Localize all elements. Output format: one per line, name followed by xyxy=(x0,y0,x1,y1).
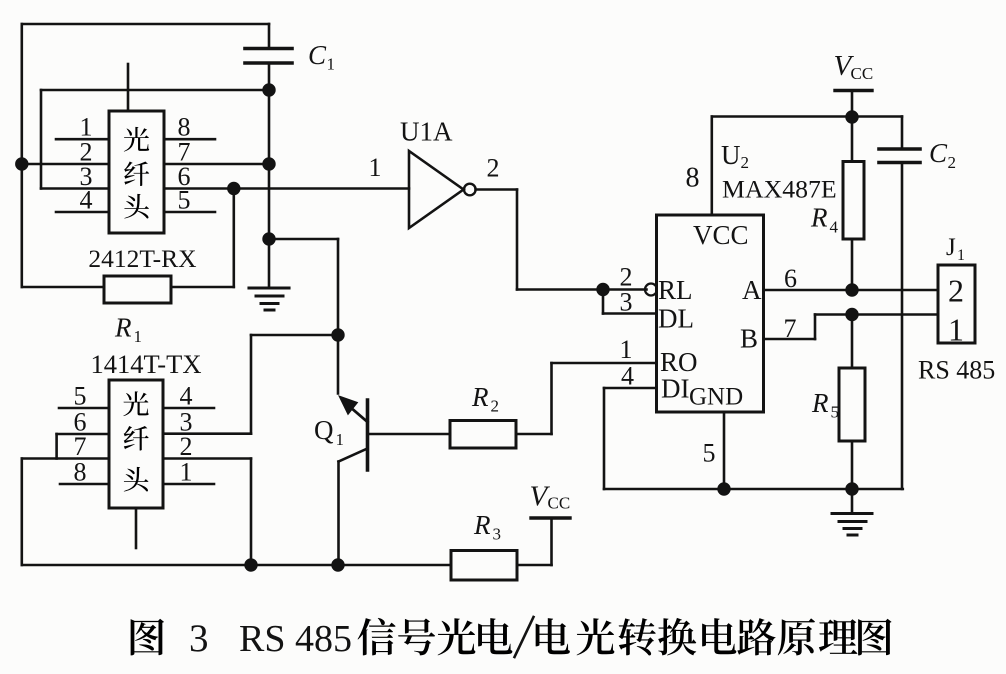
transistor Q1 emitter arrowhead xyxy=(339,396,358,415)
node junction GND pin5 xyxy=(717,482,730,495)
wire RX pin 1 xyxy=(56,138,109,141)
U1A output bubble xyxy=(464,184,476,196)
wire RX pin 2 xyxy=(22,163,109,166)
wire VCC rail horizontal xyxy=(712,115,902,118)
wire second top rail (pin3 net to ground net) xyxy=(41,89,269,92)
svg-text:1414T-TX: 1414T-TX xyxy=(91,349,202,379)
svg-text:GND: GND xyxy=(689,384,743,411)
svg-text:4: 4 xyxy=(621,362,634,391)
node junction A/R4 xyxy=(845,283,858,296)
wire TX pin3 riser to emitter node xyxy=(251,334,338,337)
TX block text xian xyxy=(124,426,149,451)
svg-text:RS 485: RS 485 xyxy=(918,356,995,385)
svg-text:1: 1 xyxy=(134,327,143,346)
svg-text:1: 1 xyxy=(620,335,633,364)
resistor R2 xyxy=(450,421,516,449)
svg-text:Q: Q xyxy=(314,415,334,445)
svg-text:C: C xyxy=(308,40,327,70)
capacitor C2 xyxy=(901,117,904,150)
resistor R1 xyxy=(104,276,171,303)
wire bottom rail xyxy=(22,564,451,567)
transistor Q1 collector diagonal xyxy=(339,449,368,462)
wire U2 pin5 GND xyxy=(723,412,726,489)
node junction pin7/ground net xyxy=(262,157,275,170)
svg-text:5: 5 xyxy=(74,382,87,411)
ground under C1 xyxy=(249,286,289,289)
wire R1 right lead up to pin6 net xyxy=(171,286,234,289)
transistor Q1 emitter diagonal xyxy=(346,404,368,423)
node junction TX pin2/bottom rail xyxy=(244,558,257,571)
wire RO to R2 xyxy=(552,362,657,365)
resistor R3 xyxy=(451,551,517,581)
TX block text tou xyxy=(124,467,149,492)
wire left rail vertical (pin2 net) xyxy=(20,24,23,287)
RX block text tou xyxy=(124,194,149,219)
svg-text:U1A: U1A xyxy=(400,117,453,147)
svg-text:R: R xyxy=(810,203,828,233)
svg-text:MAX487E: MAX487E xyxy=(722,175,837,204)
svg-text:7: 7 xyxy=(784,314,797,343)
fiber stub below TX box xyxy=(135,508,138,548)
node junction emitter node xyxy=(331,328,344,341)
node junction pin6/R1 xyxy=(227,182,240,195)
svg-text:5: 5 xyxy=(831,403,840,422)
svg-text:6: 6 xyxy=(784,264,797,293)
wire RX pin 8 xyxy=(164,138,215,141)
svg-text:R: R xyxy=(811,388,829,418)
node junction C1 bottom/pin3 rail xyxy=(262,83,275,96)
TX block text guang xyxy=(123,391,148,416)
svg-text:CC: CC xyxy=(851,64,874,83)
wire R3 right lead to VCC terminal xyxy=(517,564,552,567)
svg-text:RS 485: RS 485 xyxy=(239,618,352,660)
RX block text guang xyxy=(124,127,149,152)
svg-text:1: 1 xyxy=(369,153,382,182)
svg-text:VCC: VCC xyxy=(693,220,749,250)
wire RX pin 6 to U1A input xyxy=(164,187,409,190)
node junction ground net/Q1 branch xyxy=(262,232,275,245)
node junction R5/ground xyxy=(845,482,858,495)
RX block text xian xyxy=(124,161,149,186)
svg-text:J: J xyxy=(946,234,956,261)
wire U1A output to U2 RL xyxy=(476,188,517,191)
svg-text:5: 5 xyxy=(703,439,716,468)
svg-text:1: 1 xyxy=(957,247,965,264)
svg-text:A: A xyxy=(742,275,762,305)
wire RX pin 3 xyxy=(41,187,109,190)
svg-text:4: 4 xyxy=(180,382,193,411)
resistor R5 xyxy=(851,315,854,369)
node junction pin2/left rail xyxy=(15,157,28,170)
svg-text:DI: DI xyxy=(661,374,690,404)
svg-text:1: 1 xyxy=(948,312,964,348)
svg-text:1: 1 xyxy=(180,458,193,487)
svg-text:R: R xyxy=(473,510,491,540)
resistor R4 xyxy=(851,117,854,162)
svg-text:3: 3 xyxy=(189,617,209,660)
svg-text:2: 2 xyxy=(948,273,964,309)
connector J1 box xyxy=(938,265,975,343)
node junction B/R5 xyxy=(845,308,858,321)
wire RX pin 5 xyxy=(164,211,215,214)
svg-text:R: R xyxy=(114,313,132,343)
wire TX pin 5 xyxy=(59,407,109,410)
capacitor C1 xyxy=(268,24,271,48)
ground under R5 xyxy=(851,489,854,513)
svg-text:1: 1 xyxy=(327,55,336,74)
svg-text:RO: RO xyxy=(660,347,698,377)
wire DI branch to GND rail xyxy=(604,387,657,390)
svg-text:8: 8 xyxy=(686,163,700,194)
svg-text:B: B xyxy=(740,324,758,354)
wire R2 left lead to Q1 base xyxy=(368,433,451,436)
svg-text:DL: DL xyxy=(658,304,694,334)
inverter U1A triangle xyxy=(409,151,464,228)
svg-text:2: 2 xyxy=(487,154,500,183)
wire TX pin 1 xyxy=(163,483,214,486)
node junction VCC rail xyxy=(845,110,858,123)
wire RX pin 7 xyxy=(164,163,269,166)
svg-text:1: 1 xyxy=(336,430,345,449)
svg-text:4: 4 xyxy=(830,218,839,237)
svg-text:C: C xyxy=(929,138,948,168)
optical head TX box xyxy=(109,380,163,508)
caption slash xyxy=(515,617,534,657)
RL input bubble xyxy=(645,284,657,296)
optical head RX box xyxy=(109,111,164,233)
svg-text:3: 3 xyxy=(493,525,502,544)
wire pin3 drop vertical xyxy=(40,90,43,189)
wire TX pin 4 xyxy=(163,407,214,410)
wire GND rail bottom xyxy=(604,488,903,491)
caption figure text (Chinese) xyxy=(131,618,892,656)
VCC terminal bar top xyxy=(835,89,872,92)
wire top rail from left rail to C1 xyxy=(22,23,269,26)
svg-text:R: R xyxy=(471,382,489,412)
wire R1 left lead xyxy=(22,286,104,289)
svg-text:2412T-RX: 2412T-RX xyxy=(88,244,196,273)
fiber stub above RX box xyxy=(127,64,130,111)
wire TX pin 6 with jog to pin7 net xyxy=(57,433,109,436)
svg-text:2: 2 xyxy=(491,397,500,416)
node junction RL/DL xyxy=(596,283,609,296)
wire U2 pin 8 (VCC) xyxy=(710,117,713,216)
svg-text:RL: RL xyxy=(658,275,693,305)
wire B line to J1 pin1 xyxy=(764,338,816,341)
svg-text:5: 5 xyxy=(178,186,191,215)
wire TX pin 7 to left rail xyxy=(22,457,109,460)
svg-text:CC: CC xyxy=(548,494,571,513)
node junction Q1 collector/bottom rail xyxy=(331,558,344,571)
wire ground-net branch to Q1 emitter xyxy=(269,238,338,241)
wire left rail to bottom rail xyxy=(20,459,23,566)
wire TX pin 3 xyxy=(163,432,251,435)
transistor Q1 base bar xyxy=(366,400,370,470)
svg-text:2: 2 xyxy=(948,153,957,172)
VCC terminal bar bottom xyxy=(531,516,570,519)
svg-text:3: 3 xyxy=(620,288,633,317)
wire A line to J1 pin2 xyxy=(764,289,939,292)
IC U2 MAX487E box xyxy=(657,215,764,412)
wire DL branch xyxy=(602,290,605,314)
wire TX pin 2 drop to bottom rail xyxy=(163,457,251,460)
svg-text:8: 8 xyxy=(74,458,87,487)
wire TX pin 8 xyxy=(60,483,109,486)
wire RX pin 4 xyxy=(56,211,109,214)
svg-text:4: 4 xyxy=(80,186,93,215)
